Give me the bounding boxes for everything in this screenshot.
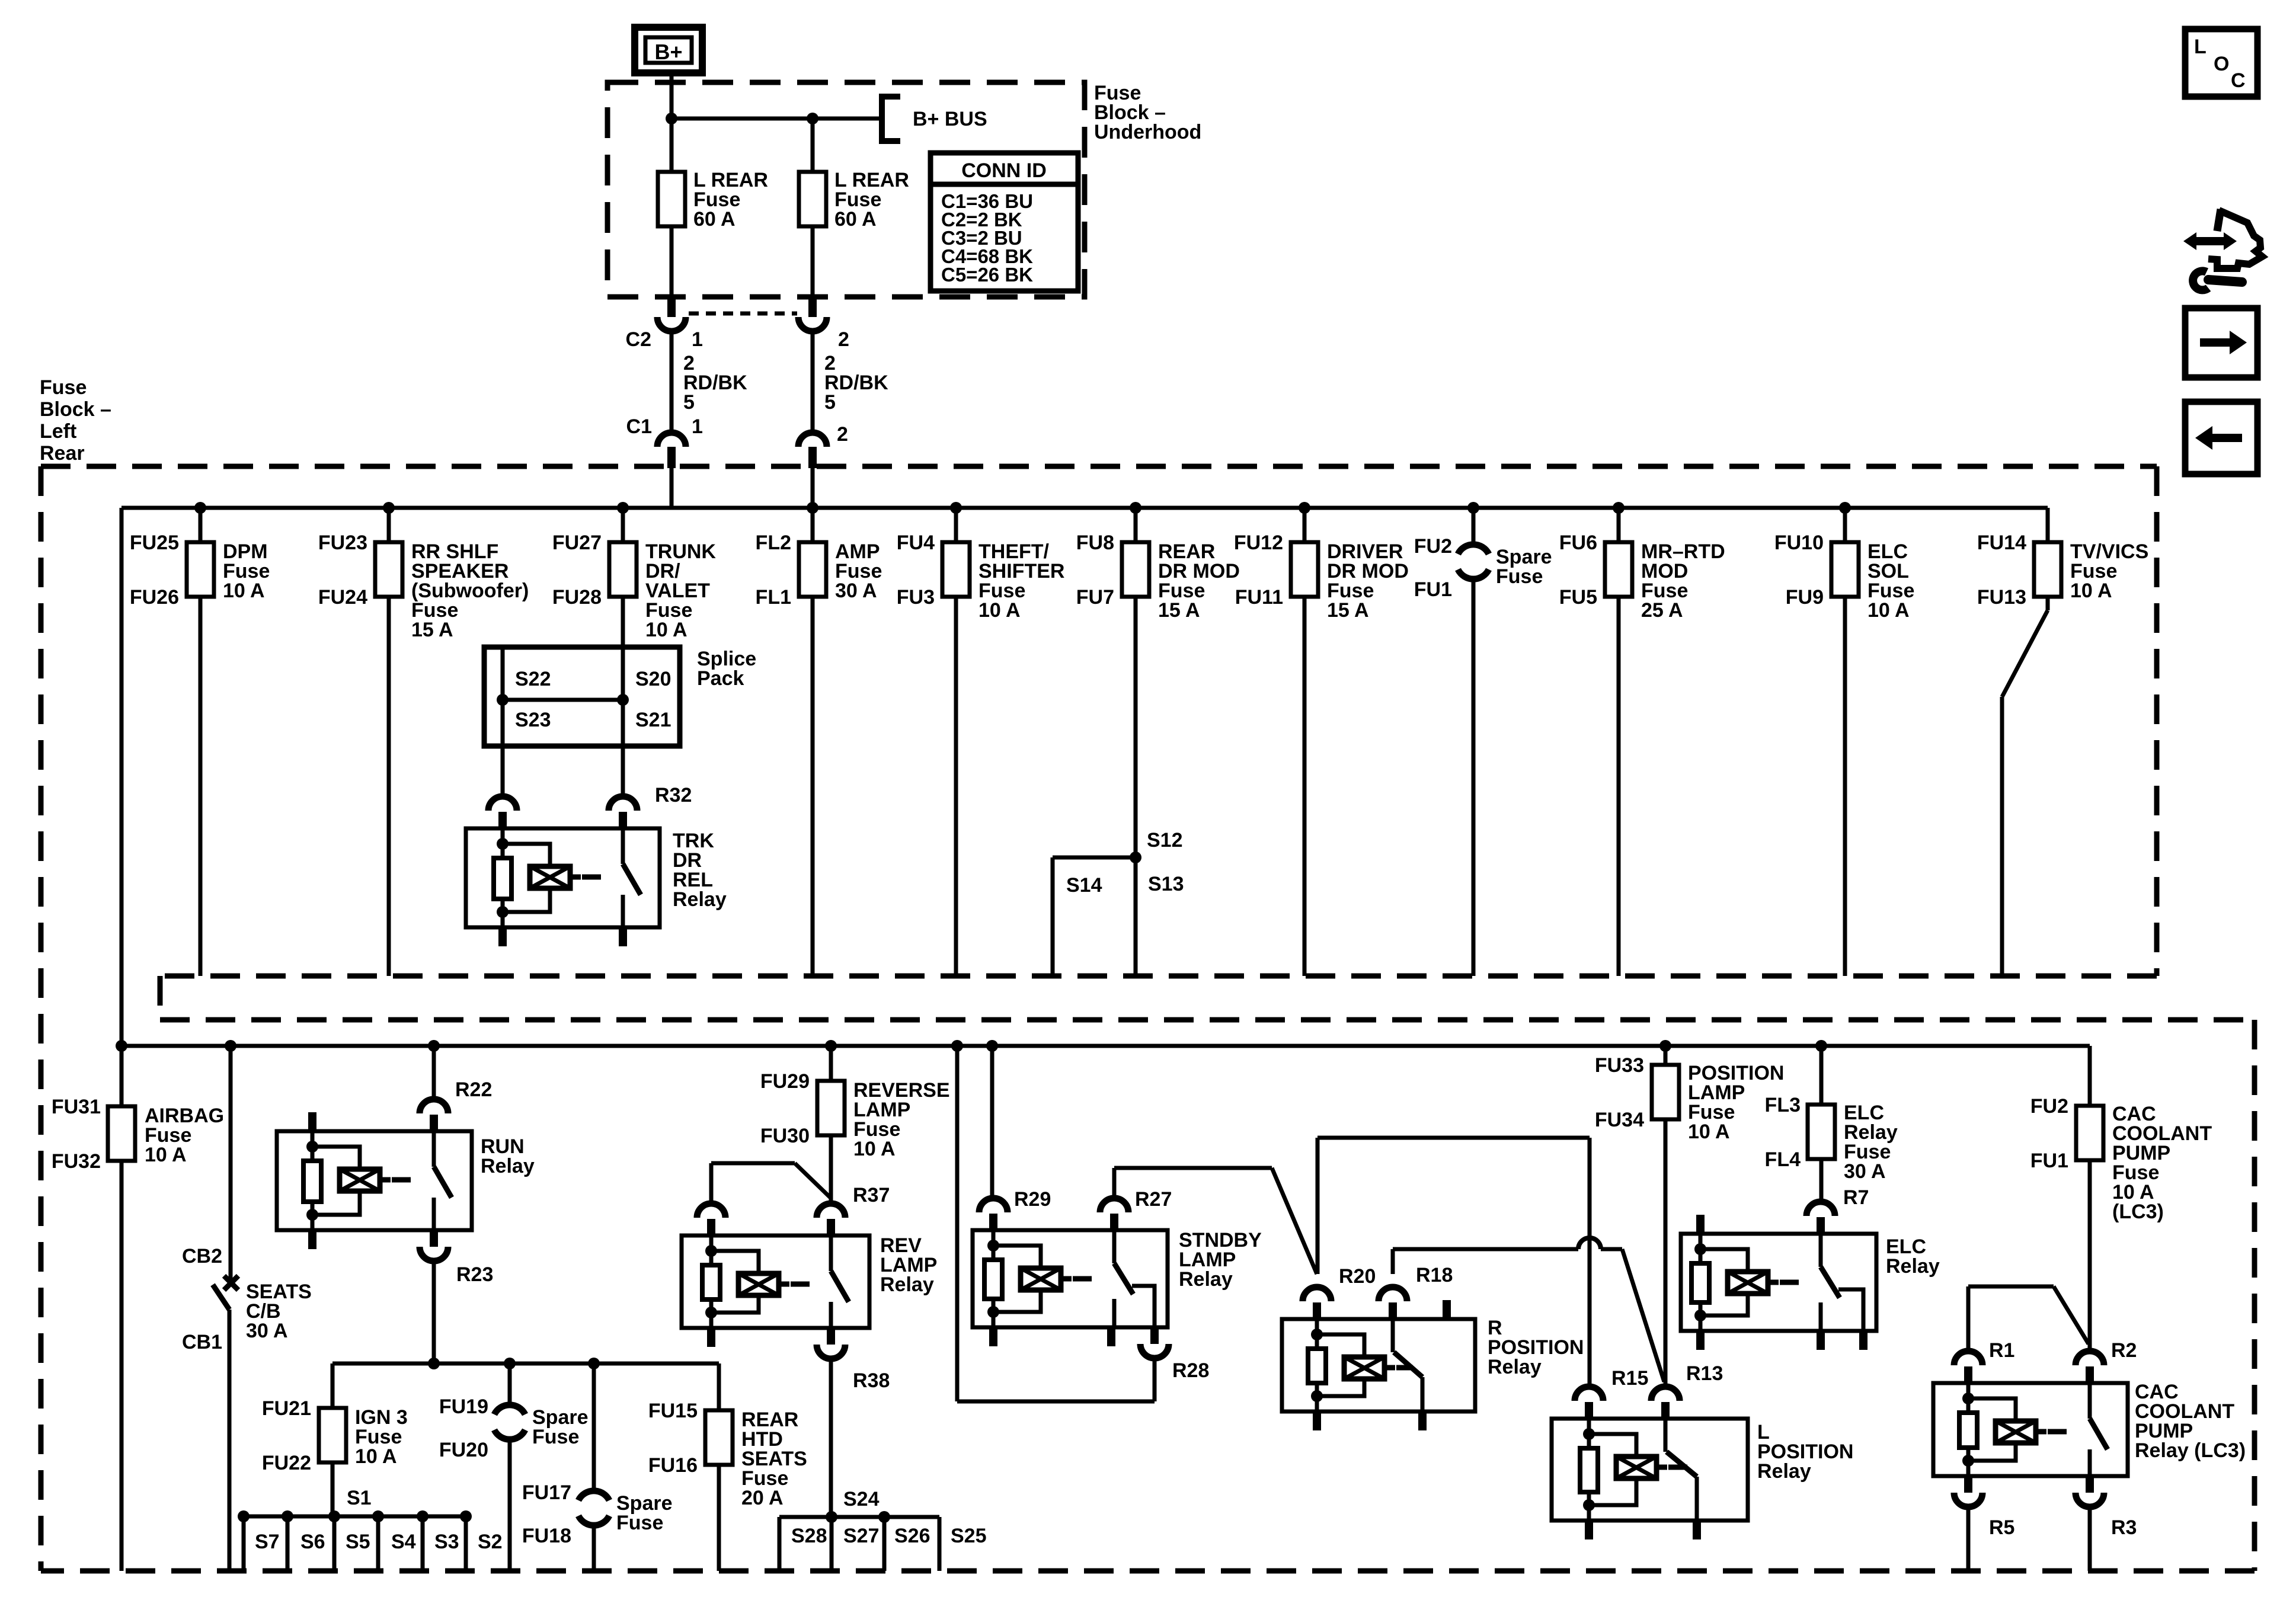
- svg-text:S2: S2: [478, 1531, 503, 1553]
- svg-text:FU33: FU33: [1595, 1054, 1644, 1077]
- svg-text:S26: S26: [894, 1525, 930, 1547]
- svg-text:FU11: FU11: [1235, 586, 1283, 609]
- svg-text:FU20: FU20: [439, 1439, 488, 1461]
- svg-text:Underhood: Underhood: [1094, 121, 1201, 143]
- svg-text:R3: R3: [2111, 1516, 2137, 1539]
- svg-text:FL3: FL3: [1765, 1094, 1801, 1116]
- svg-text:Fuse: Fuse: [532, 1426, 579, 1448]
- svg-text:FU32: FU32: [52, 1150, 101, 1173]
- svg-text:R37: R37: [853, 1184, 890, 1206]
- svg-text:10 A: 10 A: [645, 619, 687, 641]
- svg-text:15 A: 15 A: [1158, 599, 1200, 622]
- svg-text:(LC3): (LC3): [2112, 1201, 2164, 1223]
- svg-text:FU5: FU5: [1559, 586, 1597, 609]
- svg-text:2: 2: [838, 328, 849, 351]
- svg-text:S22: S22: [515, 668, 551, 690]
- svg-text:Relay: Relay: [1179, 1268, 1233, 1291]
- svg-text:S27: S27: [843, 1525, 880, 1547]
- svg-text:S13: S13: [1148, 873, 1184, 895]
- svg-text:FU15: FU15: [648, 1400, 698, 1422]
- svg-text:R15: R15: [1611, 1367, 1648, 1390]
- svg-text:FU14: FU14: [1977, 532, 2026, 554]
- svg-text:C1: C1: [626, 415, 652, 438]
- svg-text:Pack: Pack: [697, 667, 744, 690]
- svg-text:CB1: CB1: [182, 1331, 222, 1353]
- svg-text:R2: R2: [2111, 1339, 2137, 1362]
- svg-text:25 A: 25 A: [1641, 599, 1683, 622]
- svg-text:C5=26 BK: C5=26 BK: [941, 264, 1033, 286]
- svg-text:FU26: FU26: [130, 586, 179, 609]
- svg-text:Relay: Relay: [1757, 1460, 1811, 1483]
- svg-text:10 A: 10 A: [145, 1144, 187, 1166]
- svg-text:15 A: 15 A: [411, 619, 453, 641]
- svg-text:FU6: FU6: [1559, 532, 1597, 554]
- svg-text:FU31: FU31: [52, 1096, 101, 1118]
- svg-text:Relay: Relay: [880, 1273, 934, 1296]
- svg-text:FU16: FU16: [648, 1454, 698, 1477]
- svg-text:1: 1: [692, 328, 703, 351]
- svg-text:FU3: FU3: [897, 586, 935, 609]
- svg-text:FL1: FL1: [756, 586, 791, 609]
- svg-text:FU17: FU17: [522, 1481, 571, 1504]
- svg-text:2: 2: [837, 423, 848, 446]
- svg-text:R7: R7: [1843, 1186, 1869, 1209]
- svg-text:R23: R23: [456, 1263, 493, 1286]
- svg-text:R27: R27: [1135, 1188, 1172, 1211]
- svg-text:FU28: FU28: [552, 586, 602, 609]
- svg-text:Relay (LC3): Relay (LC3): [2135, 1439, 2246, 1462]
- svg-text:R20: R20: [1339, 1265, 1376, 1288]
- svg-text:S1: S1: [347, 1487, 372, 1509]
- svg-text:10 A: 10 A: [2070, 580, 2112, 602]
- svg-text:FL2: FL2: [756, 532, 791, 554]
- svg-text:S23: S23: [515, 709, 551, 731]
- svg-text:10 A: 10 A: [355, 1445, 397, 1468]
- svg-text:R18: R18: [1416, 1264, 1453, 1286]
- svg-text:Fuse: Fuse: [616, 1512, 663, 1534]
- svg-text:5: 5: [683, 391, 695, 414]
- svg-text:R28: R28: [1172, 1359, 1209, 1382]
- svg-text:FU8: FU8: [1076, 532, 1114, 554]
- svg-text:Block –: Block –: [40, 398, 111, 421]
- svg-text:FL4: FL4: [1765, 1148, 1801, 1171]
- svg-text:10 A: 10 A: [853, 1138, 896, 1160]
- svg-text:FU21: FU21: [262, 1397, 311, 1420]
- svg-text:S21: S21: [635, 709, 671, 731]
- svg-text:S14: S14: [1066, 874, 1102, 897]
- svg-text:10 A: 10 A: [1868, 599, 1910, 622]
- svg-text:R22: R22: [455, 1078, 492, 1101]
- svg-text:FU24: FU24: [318, 586, 367, 609]
- svg-text:Relay: Relay: [673, 888, 727, 911]
- svg-text:30 A: 30 A: [246, 1320, 288, 1342]
- svg-text:10 A: 10 A: [1688, 1121, 1730, 1143]
- svg-text:FU10: FU10: [1774, 532, 1824, 554]
- svg-text:Fuse: Fuse: [1496, 565, 1543, 588]
- svg-text:FU22: FU22: [262, 1452, 311, 1474]
- svg-text:L: L: [2194, 36, 2207, 58]
- svg-text:15 A: 15 A: [1327, 599, 1369, 622]
- svg-text:20 A: 20 A: [741, 1487, 784, 1509]
- svg-text:B+ BUS: B+ BUS: [913, 108, 987, 130]
- svg-text:S28: S28: [791, 1525, 827, 1547]
- svg-text:S4: S4: [391, 1531, 416, 1553]
- svg-text:1: 1: [692, 415, 703, 438]
- svg-text:Relay: Relay: [481, 1155, 535, 1177]
- svg-text:5: 5: [824, 391, 836, 414]
- svg-text:Relay: Relay: [1488, 1356, 1542, 1378]
- svg-text:FU29: FU29: [760, 1070, 810, 1093]
- svg-text:FU1: FU1: [2030, 1150, 2068, 1172]
- svg-text:FU4: FU4: [897, 532, 935, 554]
- svg-text:S3: S3: [434, 1531, 459, 1553]
- svg-text:C: C: [2231, 69, 2246, 92]
- svg-text:Relay: Relay: [1886, 1255, 1940, 1278]
- svg-text:R1: R1: [1989, 1339, 2014, 1362]
- svg-text:R29: R29: [1014, 1188, 1051, 1211]
- svg-text:R38: R38: [853, 1369, 890, 1392]
- svg-text:S20: S20: [635, 668, 671, 690]
- svg-text:FU34: FU34: [1595, 1109, 1644, 1131]
- svg-text:FU18: FU18: [522, 1525, 571, 1547]
- svg-text:FU13: FU13: [1977, 586, 2026, 609]
- svg-text:S7: S7: [255, 1531, 280, 1553]
- svg-text:FU2: FU2: [1414, 535, 1452, 558]
- svg-text:S24: S24: [843, 1488, 880, 1510]
- svg-text:R5: R5: [1989, 1516, 2014, 1539]
- svg-text:10 A: 10 A: [223, 580, 265, 602]
- svg-text:FU23: FU23: [318, 532, 367, 554]
- svg-text:30 A: 30 A: [1844, 1160, 1886, 1183]
- svg-text:30 A: 30 A: [835, 580, 877, 602]
- svg-text:B+: B+: [654, 40, 682, 64]
- svg-text:FU12: FU12: [1234, 532, 1283, 554]
- svg-text:R32: R32: [655, 784, 692, 806]
- svg-text:S6: S6: [300, 1531, 325, 1553]
- svg-text:S12: S12: [1147, 829, 1183, 852]
- svg-text:FU9: FU9: [1786, 586, 1824, 609]
- svg-text:FU30: FU30: [760, 1125, 810, 1147]
- svg-text:S25: S25: [951, 1525, 987, 1547]
- svg-text:C2: C2: [626, 328, 651, 351]
- svg-text:60 A: 60 A: [834, 208, 877, 231]
- svg-text:FU25: FU25: [130, 532, 179, 554]
- svg-text:Rear: Rear: [40, 442, 85, 465]
- svg-text:CB2: CB2: [182, 1245, 222, 1267]
- svg-text:S5: S5: [346, 1531, 370, 1553]
- svg-text:FU19: FU19: [439, 1395, 488, 1418]
- svg-text:CONN ID: CONN ID: [961, 159, 1047, 182]
- svg-text:10 A: 10 A: [978, 599, 1021, 622]
- svg-text:FU27: FU27: [552, 532, 602, 554]
- svg-text:Fuse: Fuse: [40, 376, 87, 399]
- svg-text:FU1: FU1: [1414, 578, 1452, 601]
- svg-text:Left: Left: [40, 420, 76, 443]
- svg-text:FU7: FU7: [1076, 586, 1114, 609]
- svg-text:O: O: [2214, 53, 2229, 75]
- svg-text:R13: R13: [1686, 1362, 1723, 1385]
- svg-text:FU2: FU2: [2030, 1095, 2068, 1118]
- svg-text:60 A: 60 A: [693, 208, 736, 231]
